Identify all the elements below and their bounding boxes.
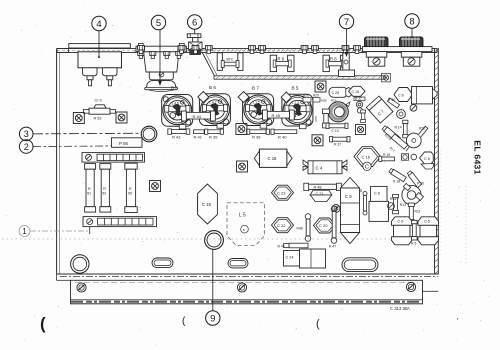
- resistor R50: [125, 163, 137, 212]
- potentiometer with lever: [402, 183, 424, 204]
- svg-text:R 8: R 8: [330, 57, 337, 62]
- front panel: [57, 274, 439, 304]
- screw + washer right of R19: [402, 154, 417, 160]
- crystal Cr9 with resistor R53: [84, 99, 116, 121]
- resistor R46 vertical: [297, 214, 311, 242]
- oval hole left: [152, 258, 173, 268]
- capacitor C8: [369, 186, 394, 221]
- svg-text:R 38: R 38: [252, 135, 261, 140]
- resistor R75 vertical: [314, 109, 330, 128]
- tube socket B5: [282, 94, 313, 129]
- letter callout C: [363, 162, 371, 170]
- callout 2 with leader: [19, 140, 122, 154]
- screw box below R10: [355, 124, 365, 134]
- capacitor C18: [254, 149, 292, 167]
- callout 1 (faint): [19, 226, 88, 237]
- diagonal resistor R20: [407, 171, 422, 188]
- svg-text:R 19: R 19: [383, 153, 390, 157]
- callout 9 with leader: [206, 249, 220, 325]
- tube socket B6: [199, 94, 230, 129]
- svg-text:Cr 9: Cr 9: [95, 99, 102, 103]
- link B (vertical wire with terminals): [360, 189, 367, 215]
- capacitor C9 (large vertical): [341, 178, 360, 244]
- washer under R30: [397, 110, 406, 119]
- screw box left of R37: [312, 135, 323, 146]
- potentiometer upper with lever: [406, 126, 428, 151]
- svg-text:R 18: R 18: [393, 180, 400, 184]
- svg-text:R 5: R 5: [411, 242, 416, 246]
- svg-text:C 5: C 5: [398, 220, 404, 224]
- capacitor C7 (tilted): [366, 96, 393, 123]
- resistor R47 vertical: [329, 206, 337, 248]
- svg-text:s: s: [243, 228, 245, 232]
- capacitor C6 hex upper: [394, 88, 413, 102]
- panel screw middle: [237, 283, 246, 292]
- callout 6: [188, 15, 202, 34]
- svg-text:R 30: R 30: [388, 98, 395, 102]
- svg-text:R: R: [129, 187, 132, 191]
- diagonal resistor R18: [389, 168, 407, 182]
- resistor R19 horizontal: [379, 153, 395, 162]
- svg-text:R 47: R 47: [329, 245, 336, 249]
- svg-text:3: 3: [24, 129, 29, 139]
- svg-text:R13: R13: [400, 203, 406, 207]
- svg-text:C 20: C 20: [319, 223, 328, 228]
- svg-text:(: (: [182, 316, 186, 327]
- resistor R44 between B8 and B6: [182, 111, 216, 121]
- screw bolt on rail2 left of C25: [315, 81, 326, 92]
- svg-text:BTC: BTC: [227, 58, 234, 62]
- svg-text:R46: R46: [297, 227, 303, 231]
- svg-text:C 19: C 19: [202, 202, 212, 207]
- svg-text:R 35: R 35: [209, 134, 218, 139]
- screw box between B6 and B7: [236, 124, 247, 135]
- svg-text:B 8: B 8: [171, 85, 178, 90]
- resistor R11 vertical: [408, 203, 420, 223]
- svg-text:R 9: R 9: [278, 57, 285, 62]
- pot core coil (top view): [321, 99, 350, 122]
- resistor R35: [205, 129, 224, 139]
- capacitor C20 hex: [314, 218, 336, 233]
- callout 8: [405, 14, 419, 38]
- panel screw right: [406, 282, 415, 291]
- svg-text:C 16: C 16: [362, 154, 371, 159]
- svg-text:P 56: P 56: [119, 141, 129, 146]
- svg-text:9: 9: [210, 314, 215, 325]
- chassis left edge: [57, 49, 69, 275]
- resistor R45 between B7 and B5: [263, 110, 295, 120]
- svg-text:C 9: C 9: [345, 194, 352, 199]
- connector socket right (item 8): [400, 37, 424, 66]
- resistor R8 on rail: [323, 55, 347, 71]
- svg-text:4: 4: [96, 19, 101, 30]
- capacitor C21: [310, 190, 332, 201]
- svg-text:R 48: R 48: [314, 186, 322, 190]
- capacitor C3 (large with wing): [410, 87, 437, 112]
- svg-text:R 53: R 53: [94, 117, 102, 121]
- diagonal resistor R23B: [391, 134, 408, 149]
- potentiometer P56: [112, 138, 143, 148]
- svg-text:R17: R17: [389, 146, 396, 153]
- svg-text:6: 6: [192, 18, 197, 29]
- bracket under callout 7: [339, 53, 355, 77]
- svg-text:1: 1: [22, 227, 27, 236]
- screw box right of C18: [237, 161, 248, 172]
- tube socket B7: [243, 94, 274, 129]
- diamond tab at B6 top-left: [198, 92, 209, 103]
- svg-text:C 22: C 22: [277, 223, 286, 228]
- svg-text:R26: R26: [331, 99, 337, 103]
- resistor R13 vertical: [393, 194, 407, 213]
- svg-text:R 43: R 43: [278, 245, 285, 249]
- resistor R41: [194, 130, 205, 140]
- screw right of R53: [116, 112, 127, 123]
- svg-text:R11: R11: [415, 210, 421, 214]
- svg-text:R28: R28: [419, 127, 425, 131]
- resistor R10 mini vertical: [361, 110, 366, 123]
- svg-text:R26: R26: [303, 94, 309, 98]
- svg-text:C 4: C 4: [316, 165, 323, 170]
- svg-text:(: (: [316, 318, 320, 330]
- svg-text:R 20: R 20: [417, 182, 424, 186]
- oval hole middle: [228, 259, 248, 268]
- svg-text:EL 6431: EL 6431: [473, 140, 483, 174]
- svg-text:C 8: C 8: [374, 192, 380, 196]
- rail bolts: [138, 46, 361, 54]
- capacitor C23: [272, 185, 294, 200]
- svg-text:R 27: R 27: [355, 97, 362, 101]
- svg-text:B 5: B 5: [292, 85, 299, 90]
- svg-text:C 15: C 15: [352, 90, 360, 94]
- resistor R52: [100, 164, 111, 212]
- svg-text:R 45: R 45: [272, 113, 281, 118]
- svg-text:5: 5: [156, 18, 161, 29]
- center line dotted: [2, 238, 434, 240]
- resistor R27 with washers: [354, 97, 365, 113]
- capacitor C22: [272, 218, 294, 233]
- resistor R51: [85, 164, 96, 212]
- terminal strip lower: [83, 217, 157, 227]
- grommet hole bottom left: [71, 255, 89, 273]
- svg-text:7: 7: [344, 17, 349, 28]
- screw box mid-left: [150, 181, 161, 192]
- svg-text:R: R: [103, 187, 106, 191]
- capacitor C4 (large horizontal with wings): [303, 160, 347, 174]
- coil L5 dashed outline: [227, 203, 265, 246]
- sub-chassis rear rail: [203, 53, 391, 82]
- chassis right edge (hatched fold): [435, 48, 439, 275]
- svg-text:C 313 38A: C 313 38A: [390, 306, 410, 311]
- connector bracket top right: [363, 47, 433, 52]
- screw left of R53: [73, 113, 84, 124]
- svg-text:R: R: [88, 187, 91, 191]
- svg-text:C 6: C 6: [424, 157, 430, 161]
- svg-text:C 25: C 25: [332, 91, 340, 95]
- resistor R40 under B5: [271, 129, 297, 140]
- capacitor C25: [329, 87, 352, 97]
- svg-text:R 37: R 37: [334, 142, 341, 146]
- margin dotted line: [465, 186, 467, 264]
- callout 3 with leader: [19, 127, 141, 141]
- capacitor C19 (tall hexagon): [198, 184, 218, 224]
- grommet near P56: [141, 126, 157, 142]
- callout 5: [151, 15, 165, 86]
- wire from strip screw: [89, 227, 91, 235]
- capacitor C6 hex (right upper): [420, 152, 434, 169]
- svg-text:C 5: C 5: [424, 220, 430, 224]
- resistor R9 on rail: [270, 55, 294, 71]
- standoff component BTC (right of item 6): [205, 46, 243, 71]
- svg-text:R29: R29: [313, 94, 319, 98]
- svg-text:R 43: R 43: [172, 134, 181, 139]
- resistor R48 horizontal: [304, 183, 342, 190]
- diamond tab at B5 top-left: [281, 92, 291, 102]
- svg-text:C 18: C 18: [268, 156, 278, 161]
- svg-text:B: B: [360, 189, 362, 193]
- svg-text:52: 52: [102, 192, 106, 196]
- small parts row above B5 right: [303, 94, 320, 103]
- chassis bottom edge of main plate: [57, 274, 439, 277]
- svg-text:C 6: C 6: [398, 93, 404, 97]
- svg-text:R 40: R 40: [278, 135, 287, 140]
- grommet under C19: [205, 231, 224, 250]
- screw left of C9: [332, 205, 340, 213]
- diamond tab at B7 top-left: [238, 92, 249, 103]
- resistor R5 vertical between C5 and C6b: [411, 220, 417, 245]
- svg-text:L 5: L 5: [239, 213, 246, 219]
- tube socket B8: [162, 95, 193, 130]
- diagonal resistor R22B: [382, 125, 401, 142]
- svg-text:50: 50: [128, 192, 132, 196]
- svg-text:8: 8: [409, 17, 414, 28]
- resistor R30 diagonal: [387, 98, 399, 108]
- capacitor C16 hex large: [354, 147, 381, 167]
- capacitor C24: [284, 249, 326, 268]
- resistor R49 horizontal bottom: [278, 243, 309, 248]
- svg-text:(: (: [40, 314, 46, 333]
- resistor R38 under B7: [247, 129, 270, 140]
- svg-text:2: 2: [24, 142, 29, 152]
- svg-text:C 23: C 23: [277, 190, 286, 195]
- svg-text:B 7: B 7: [252, 85, 259, 90]
- capacitor C6b: [418, 217, 439, 245]
- electrolytic can C1 (item 5): [136, 43, 186, 91]
- svg-text:51: 51: [87, 192, 91, 196]
- terminal strip upper: [82, 153, 145, 163]
- oval hole right (stadium): [342, 258, 378, 272]
- capacitor C5: [392, 217, 413, 245]
- callout 4: [92, 16, 106, 58]
- svg-text:R75: R75: [314, 116, 318, 122]
- svg-text:R 44: R 44: [193, 114, 202, 119]
- resistor R43 under B8: [168, 129, 190, 139]
- svg-text:R 14: R 14: [395, 126, 402, 130]
- svg-text:C: C: [365, 164, 369, 170]
- connector socket left (item under 7 area): [365, 37, 389, 66]
- transformer T1 (item 4): [69, 44, 131, 86]
- svg-text:M30: M30: [321, 99, 327, 103]
- svg-text:C 24: C 24: [286, 256, 294, 260]
- svg-text:': ': [457, 317, 459, 326]
- svg-text:B 6: B 6: [209, 85, 216, 90]
- svg-text:R12: R12: [390, 197, 396, 201]
- svg-text:C 21: C 21: [316, 192, 324, 196]
- panel screw left: [77, 283, 86, 292]
- svg-text:R 41: R 41: [194, 134, 203, 139]
- capacitor C15: [349, 86, 366, 96]
- svg-text:C 13: C 13: [332, 129, 339, 133]
- resistor R14 vertical: [395, 120, 408, 138]
- resistor C13 horizontal: [326, 123, 348, 133]
- callout 7: [339, 14, 353, 57]
- trimmer (item 6): [187, 34, 202, 55]
- resistor R37 horizontal: [330, 137, 351, 147]
- chassis main plate top edge: [57, 49, 437, 53]
